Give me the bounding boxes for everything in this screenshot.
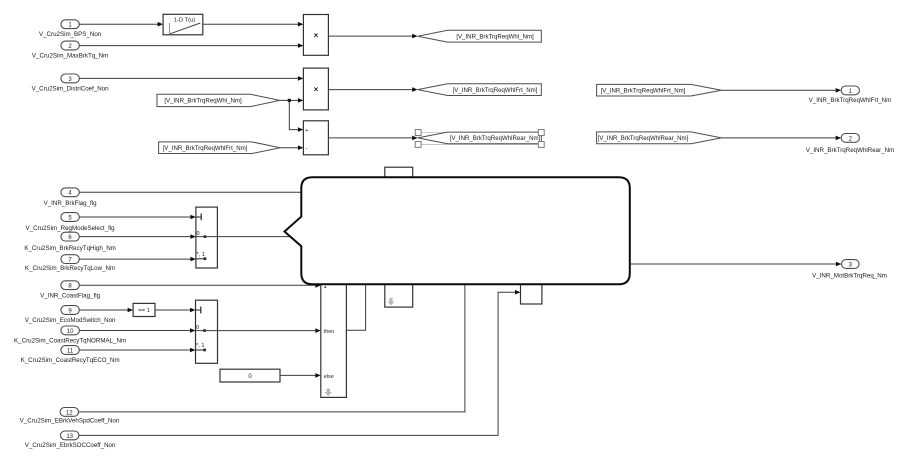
inport 1 [61,20,79,29]
svg-text:V_INR_BrkTrqReqWhlRear_Nm: V_INR_BrkTrqReqWhlRear_Nm [806,147,894,154]
svg-text:10: 10 [67,329,74,335]
inport 3 [61,74,79,83]
svg-text:[V_INR_BrkTrqReqWhlFrt_Nm]: [V_INR_BrkTrqReqWhlFrt_Nm] [601,87,686,94]
svg-text:V_Cru2Sim_EbrkSOCCoeff_Non: V_Cru2Sim_EbrkSOCCoeff_Non [25,442,116,449]
svg-text:K_Cru2Sim_CoastRecyTqECO_Nm: K_Cru2Sim_CoastRecyTqECO_Nm [21,357,120,364]
svg-text:1-D T(u): 1-D T(u) [174,18,196,24]
outport 1 [841,86,859,95]
wire port11 to switch SW2 [79,348,195,353]
wire SW2 out to if block then input [196,328,321,333]
svg-text:V_INR_CoastFlag_flg: V_INR_CoastFlag_flg [40,293,100,300]
wire port7 to switch SW1 [79,257,196,262]
inport 8 [61,281,79,290]
from tag FR1 [V_INR_BrkTrqReqWhlFrt_Nm] [597,84,722,96]
selection guide lines [421,133,538,145]
svg-text:K_Cru2Sim_CoastRecyTqNORMAL_Nm: K_Cru2Sim_CoastRecyTqNORMAL_Nm [14,337,126,344]
inport 12 [60,408,78,417]
wire port3 to product P2 [79,76,303,81]
wire FR2 to outport 2 [721,136,841,141]
if action block [321,278,347,397]
wire port6 to switch SW1 [79,234,196,239]
svg-text:V_INR_BrkFlag_flg: V_INR_BrkFlag_flg [44,200,98,207]
svg-text:V_INR_MotBrkTrqReq_Nm: V_INR_MotBrkTrqReq_Nm [812,273,887,280]
wire port12 up into bubble [79,282,465,412]
wire junction down to sum [289,100,303,131]
svg-text:[V_INR_BrkTrqReqWhl_Nm]: [V_INR_BrkTrqReqWhl_Nm] [456,33,534,40]
svg-text:K_Cru2Sim_BrkRecyTqLow_Nm: K_Cru2Sim_BrkRecyTqLow_Nm [25,265,115,272]
lookup table block 1-D T(u) [163,14,203,35]
wire port10 to switch SW2 [79,328,195,333]
svg-text:+: + [305,128,308,134]
svg-text:V_Cru2Sim_EBrkVehSpdCoeff_Non: V_Cru2Sim_EBrkVehSpdCoeff_Non [20,418,120,425]
goto tag G1 [V_INR_BrkTrqReqWhl_Nm] [418,30,542,42]
outport 2 [841,134,859,143]
grey down arrow in action block [387,298,394,306]
action subsystem block (behind bubble, with down arrow) [385,167,413,307]
callout bubble [285,177,630,284]
multiport switch SW1 [196,207,218,268]
svg-text:12: 12 [66,410,73,416]
wire port13 to right action block [79,290,521,436]
selection handle top-left [415,130,421,136]
wire port9 to eq block [79,308,133,313]
svg-text:else: else [324,374,334,380]
svg-text:×: × [314,31,319,40]
svg-text:V_Cru2Sim_BPS_Non: V_Cru2Sim_BPS_Non [39,31,102,38]
outport 3 [842,260,860,269]
inport 9 [61,306,79,315]
product block P1 [303,15,328,56]
wire port8 to if block [79,283,320,288]
from tag FR2 [V_INR_BrkTrqReqWhlRear_Nm] [597,132,722,144]
goto tag G2 [V_INR_BrkTrqReqWhlFrt_Nm] [418,84,542,96]
wire SW1 out to bubble tail [196,236,291,238]
multiport switch SW2 [196,300,218,363]
svg-text:V_Cru2Sim_DistriCoef_Non: V_Cru2Sim_DistriCoef_Non [32,85,110,92]
svg-text:[V_INR_BrkTrqReqWhl_Nm]: [V_INR_BrkTrqReqWhl_Nm] [164,98,242,105]
wire P1 to goto tag G1 [328,34,417,39]
svg-text:*, 1: *, 1 [196,343,204,349]
svg-text:*, 1: *, 1 [197,252,205,258]
svg-text:V_Cru2Sim_MaxBrkTq_Nm: V_Cru2Sim_MaxBrkTq_Nm [32,53,108,60]
selection handle top-right [538,130,544,136]
inport 2 [61,41,79,50]
inport 7 [61,255,79,264]
svg-text:[V_INR_BrkTrqReqWhlRear_Nm]: [V_INR_BrkTrqReqWhlRear_Nm] [450,135,541,142]
wire P2 to goto tag G2 [328,87,417,92]
svg-text:[V_INR_BrkTrqReqWhlFrt_Nm]: [V_INR_BrkTrqReqWhlFrt_Nm] [163,145,248,152]
constant block 0 [220,369,280,382]
from tag FA [V_INR_BrkTrqReqWhl_Nm] [157,94,280,106]
wire port4 to bubble [79,191,302,193]
selection handle bottom-left [415,142,421,148]
svg-text:V_Cru2Sim_RegModeSelect_flg: V_Cru2Sim_RegModeSelect_flg [26,225,116,232]
inport 10 [61,326,79,335]
svg-text:[V_INR_BrkTrqReqWhlFrt_Nm]: [V_INR_BrkTrqReqWhlFrt_Nm] [453,87,538,94]
grey down arrow in if block [325,389,332,397]
wire bubble to outport 3 [631,262,842,267]
svg-text:K_Cru2Sim_BrkRecyTqHigh_Nm: K_Cru2Sim_BrkRecyTqHigh_Nm [24,245,115,252]
wire port1 to lookup [79,22,163,27]
compare block == 1 [133,303,155,316]
product block P2 [303,68,328,110]
inport 6 [61,232,79,241]
svg-text:11: 11 [67,348,74,354]
action subsystem block right (small) [521,284,542,305]
wire lookup to product P1 [203,22,304,27]
wire FB to sum minus input [280,145,303,150]
svg-text:0: 0 [196,325,199,331]
selection handle bottom-right [538,142,544,148]
svg-text:13: 13 [66,434,73,440]
wire eq block to switch SW2 [155,308,196,313]
svg-text:== 1: == 1 [138,308,150,314]
sum block S1 [303,121,328,155]
svg-text:V_Cru2Sim_EcoModSwitch_Non: V_Cru2Sim_EcoModSwitch_Non [25,317,116,324]
wire FA to product P2 with junction [280,98,304,103]
inport 13 [61,431,79,440]
wire port2 to product P1 [79,43,303,48]
inport 4 [61,188,79,197]
svg-text:-: - [306,145,308,152]
from tag FB [V_INR_BrkTrqReqWhlFrt_Nm] [159,142,281,154]
svg-text:then: then [324,329,335,335]
wire constant to if block else input [280,373,321,378]
wire port5 to switch SW1 [79,215,196,220]
goto tag G3 [V_INR_BrkTrqReqWhlRear_Nm] selected [418,132,542,144]
inport 5 [61,213,79,222]
wire FR1 to outport 1 [721,88,841,93]
wire loop right of if block [346,280,365,330]
svg-text:[V_INR_BrkTrqReqWhlRear_Nm]: [V_INR_BrkTrqReqWhlRear_Nm] [598,135,689,142]
wire S1 to goto tag G3 [328,136,417,141]
inport 11 [61,346,79,355]
svg-text:V_INR_BrkTrqReqWhlFrt_Nm: V_INR_BrkTrqReqWhlFrt_Nm [809,97,892,104]
svg-text:×: × [314,85,319,94]
